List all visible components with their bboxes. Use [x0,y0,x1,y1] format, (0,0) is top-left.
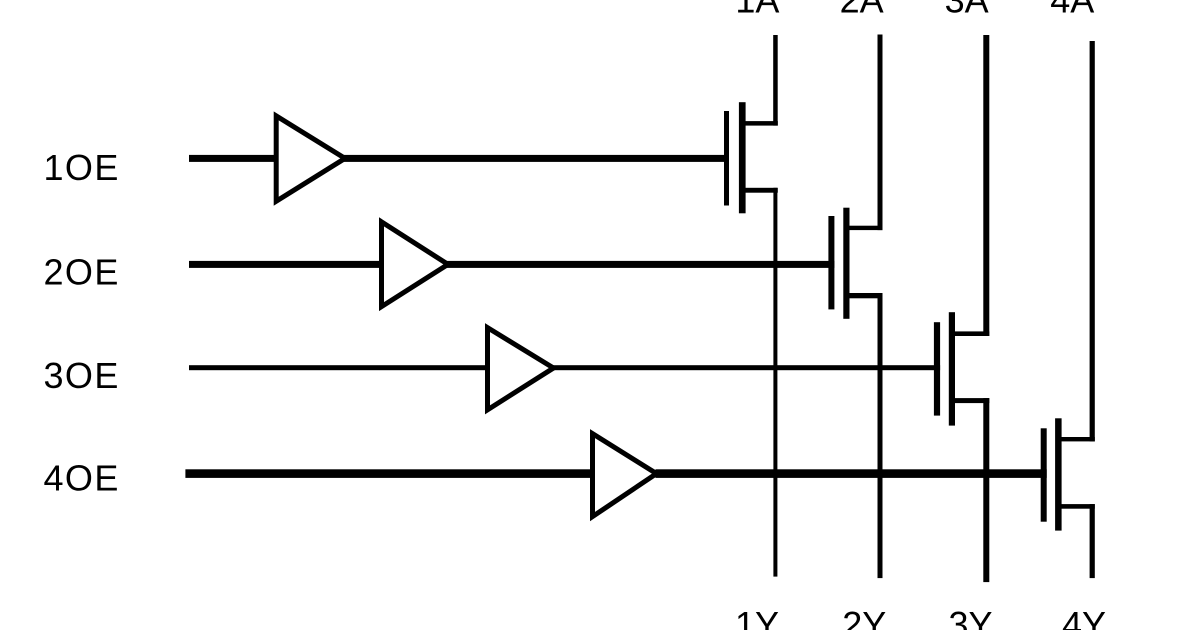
buffer U2 [382,222,449,307]
wire drain stub Q2 [846,226,883,230]
wire source stub Q1 [742,188,778,193]
transistor Q4 [1041,418,1062,530]
svg-text:2A: 2A [840,0,884,21]
wire 2OE input to buffer U2 [189,261,382,268]
buffer U4 [593,434,657,517]
wire 1A vertical net [773,35,778,126]
wire 3OE input to buffer U3 [189,365,488,370]
svg-text:1A: 1A [735,0,779,21]
wire 1OE input to buffer U1 [189,155,277,162]
wire source stub Q4 [1058,504,1095,509]
transistor Q3 [934,312,955,425]
wire buffer U2 output to gate of Q2 [447,261,835,268]
wire buffer U1 output to gate of Q1 [344,155,729,162]
wire drain stub Q4 [1058,437,1095,441]
svg-text:2OE: 2OE [44,251,120,292]
wire 3A vertical net [983,35,989,336]
wire drain stub Q3 [952,331,989,336]
wire 4A vertical net [1090,41,1095,441]
wire source stub Q2 [846,293,883,298]
svg-text:1Y: 1Y [735,604,779,630]
svg-text:4Y: 4Y [1062,604,1106,630]
wire 1Y vertical net [773,188,777,577]
wire 3Y vertical net [983,398,989,582]
wire 4Y vertical net [1090,504,1095,578]
buffer U1 [276,116,345,201]
svg-text:1OE: 1OE [44,147,120,188]
wire 2Y vertical net [878,293,883,578]
svg-text:4OE: 4OE [44,458,120,499]
wire buffer U4 output to gate of Q4 [656,469,1047,478]
buffer U3 [488,328,554,410]
transistor Q1 [724,102,746,213]
svg-text:4A: 4A [1050,0,1094,21]
wire buffer U3 output to gate of Q3 [553,365,941,370]
svg-text:2Y: 2Y [842,604,886,630]
wire source stub Q3 [952,398,989,403]
svg-text:3A: 3A [945,0,989,21]
wire drain stub Q1 [742,121,778,126]
transistor Q2 [828,208,849,319]
svg-text:3OE: 3OE [44,355,120,396]
svg-text:3Y: 3Y [948,604,992,630]
wire 2A vertical net [878,35,883,231]
wire 4OE input to buffer U4 [185,469,592,478]
